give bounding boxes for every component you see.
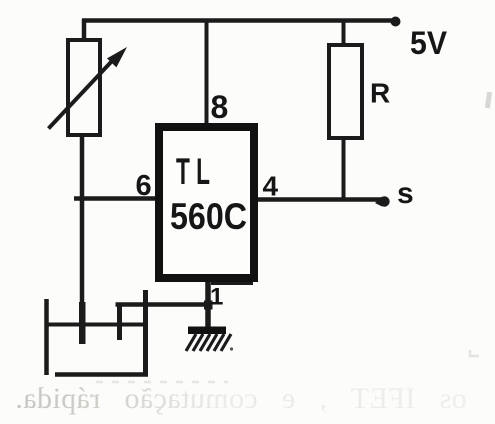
svg-text:4: 4	[263, 171, 279, 202]
svg-text:6: 6	[136, 170, 152, 202]
svg-text:1: 1	[210, 284, 223, 311]
svg-text:T L: T L	[176, 151, 210, 192]
svg-text:s: s	[397, 177, 414, 210]
svg-text:8: 8	[211, 89, 229, 125]
svg-text:R: R	[370, 78, 390, 109]
svg-text:560C: 560C	[170, 196, 247, 237]
svg-text:5V: 5V	[410, 25, 448, 61]
